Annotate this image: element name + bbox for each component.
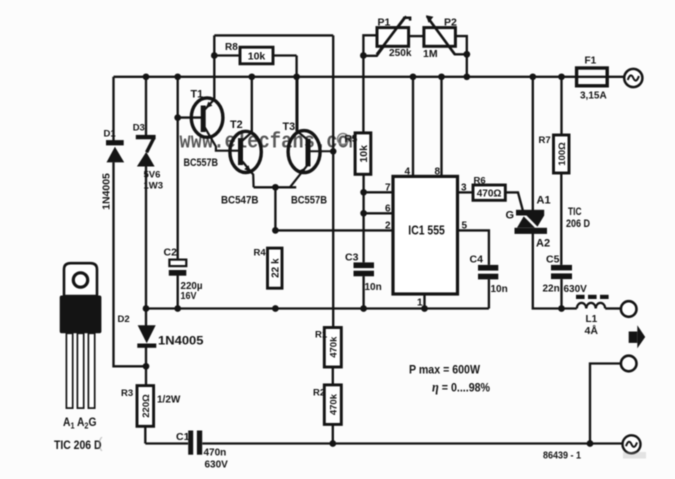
wire T2/T3 emitter junction bbox=[254, 187, 297, 230]
svg-text:1: 1 bbox=[417, 298, 423, 309]
svg-text:R2: R2 bbox=[313, 388, 325, 399]
wire P1 left lead bbox=[363, 35, 377, 56]
junction R4 pin2 bbox=[272, 227, 279, 234]
junction T1 base bbox=[174, 114, 181, 121]
output arrow bbox=[629, 325, 646, 348]
junction T2 collector top rail bbox=[248, 73, 255, 80]
svg-text:1M: 1M bbox=[423, 48, 438, 60]
junction pin4 top rail bbox=[410, 73, 417, 80]
svg-text:10n: 10n bbox=[365, 282, 382, 293]
wire P1 wiper tie bbox=[363, 16, 406, 56]
svg-text:7: 7 bbox=[385, 182, 391, 193]
diode D2 bbox=[137, 325, 156, 348]
svg-text:8: 8 bbox=[435, 167, 441, 178]
wire top loop bbox=[214, 34, 333, 36]
watermark www.elecfans.com bbox=[180, 130, 361, 155]
wire 555 pin4 lead bbox=[412, 77, 414, 177]
wire D3/D2/R3 column bbox=[144, 77, 147, 444]
wire P1-P2 link bbox=[409, 35, 424, 37]
resistor R7 bbox=[554, 135, 570, 173]
svg-text:D3: D3 bbox=[133, 123, 145, 134]
wire L1 to terminal bbox=[605, 307, 621, 309]
svg-text:G: G bbox=[506, 209, 515, 221]
svg-text:P max = 600W: P max = 600W bbox=[409, 363, 481, 377]
resistor R1 bbox=[324, 328, 341, 368]
svg-text:BC557B: BC557B bbox=[184, 157, 219, 169]
junction pin1 ground rail bbox=[421, 305, 428, 312]
junction T2 T3 emitters bbox=[272, 184, 279, 191]
svg-text:86439 - 1: 86439 - 1 bbox=[543, 450, 581, 462]
wire T1 base lead bbox=[178, 116, 202, 118]
junction P2 wiper bbox=[463, 51, 470, 58]
wire 555 pin1 lead bbox=[423, 294, 425, 309]
triac symbol bbox=[515, 210, 548, 234]
svg-text:470k: 470k bbox=[328, 393, 339, 415]
svg-text:470k: 470k bbox=[328, 336, 339, 358]
svg-text:A1 A2G: A1 A2G bbox=[63, 415, 97, 431]
wire T2 collector bbox=[251, 77, 253, 132]
junction R8 left bbox=[211, 52, 218, 59]
junction R5 pin7 bbox=[360, 189, 367, 196]
junction C2 ground rail bbox=[174, 305, 181, 312]
junction C2 column top rail bbox=[174, 73, 181, 80]
transistor T1 bbox=[191, 98, 238, 151]
svg-text:R4: R4 bbox=[254, 248, 267, 259]
inductor L1 core dashes bbox=[576, 295, 609, 299]
svg-text:BC547B: BC547B bbox=[221, 194, 259, 206]
wire R5 column bbox=[362, 56, 365, 309]
svg-text:5: 5 bbox=[462, 220, 468, 231]
AC source bottom bbox=[623, 435, 641, 453]
junction pin8 top rail bbox=[438, 73, 445, 80]
svg-text:220Ω: 220Ω bbox=[141, 394, 152, 418]
svg-text:T1: T1 bbox=[191, 89, 204, 101]
svg-text:10k: 10k bbox=[248, 51, 266, 63]
svg-text:100Ω: 100Ω bbox=[557, 142, 568, 166]
svg-text:470n: 470n bbox=[204, 448, 227, 459]
svg-text:TIC 206 D: TIC 206 D bbox=[54, 438, 102, 452]
svg-text:η = 0....98%: η = 0....98% bbox=[432, 381, 490, 396]
junction pin6 bbox=[360, 210, 367, 217]
wire 555 pin8 lead bbox=[440, 77, 442, 177]
potentiometer P2 bbox=[424, 15, 456, 54]
svg-text:3: 3 bbox=[461, 182, 467, 193]
svg-text:22 k: 22 k bbox=[271, 258, 282, 278]
wire P2 wiper tie bbox=[427, 16, 467, 54]
svg-text:16V: 16V bbox=[181, 290, 197, 302]
wire 555 pin3 lead bbox=[458, 191, 474, 193]
wire C4 bottom lead bbox=[488, 279, 490, 308]
capacitor C5 bbox=[551, 265, 572, 279]
zener D3 bbox=[136, 135, 156, 167]
svg-text:L1: L1 bbox=[586, 314, 598, 325]
svg-text:3,15A: 3,15A bbox=[580, 91, 607, 102]
wire long feedback vertical bbox=[332, 35, 334, 327]
svg-text:10k: 10k bbox=[358, 145, 370, 163]
svg-text:C5: C5 bbox=[546, 254, 560, 266]
junction R2 bottom rail bbox=[329, 440, 336, 447]
svg-text:5V6: 5V6 bbox=[144, 170, 161, 181]
TIC206D package drawing bbox=[60, 263, 102, 408]
junction R7 top rail bbox=[558, 73, 565, 80]
inductor L1 coil bbox=[577, 303, 605, 309]
svg-text:P2: P2 bbox=[444, 17, 457, 29]
wire D1 column bbox=[114, 77, 147, 367]
wire P2 right lead bbox=[455, 36, 466, 77]
resistor R8 bbox=[240, 47, 273, 64]
svg-text:R3: R3 bbox=[121, 388, 133, 399]
junction D3 D2 ground rail bbox=[143, 305, 150, 312]
svg-text:22n: 22n bbox=[543, 284, 560, 295]
wire C2 / T1 base column bbox=[177, 77, 179, 309]
svg-text:4Å: 4Å bbox=[585, 324, 599, 337]
transistor T2 bbox=[230, 131, 261, 187]
junction terminal2 bottom rail bbox=[587, 440, 594, 447]
junction T3 collector top rail bbox=[293, 73, 300, 80]
svg-text:6: 6 bbox=[385, 203, 391, 214]
svg-text:R7: R7 bbox=[539, 135, 551, 146]
svg-text:1N4005: 1N4005 bbox=[100, 173, 112, 210]
svg-text:C1: C1 bbox=[176, 431, 190, 443]
diode D1 bbox=[106, 140, 124, 162]
svg-text:R1: R1 bbox=[315, 330, 328, 341]
junction C3 ground rail bbox=[360, 305, 367, 312]
transistor T3 bbox=[288, 77, 333, 188]
svg-text:D2: D2 bbox=[118, 314, 130, 325]
svg-text:D1: D1 bbox=[104, 128, 117, 139]
resistor R4 bbox=[268, 248, 283, 288]
svg-text:A1: A1 bbox=[537, 195, 551, 207]
capacitor C3 bbox=[354, 262, 375, 276]
potentiometer P1 bbox=[377, 18, 410, 55]
IC 555 box U1 bbox=[393, 176, 458, 294]
wire R1-R2 link bbox=[332, 367, 334, 444]
svg-text:T2: T2 bbox=[230, 119, 243, 131]
svg-text:C2: C2 bbox=[164, 247, 178, 259]
junction T3 base bbox=[330, 148, 337, 155]
wire bottom rail bbox=[145, 442, 623, 444]
junction C5 output rail bbox=[558, 305, 565, 312]
svg-text:C4: C4 bbox=[470, 254, 484, 266]
output terminal 2 bbox=[621, 356, 637, 372]
junction R4 ground rail bbox=[272, 305, 279, 312]
junction triac top rail bbox=[529, 73, 536, 80]
wire triac column bbox=[533, 77, 577, 309]
wire ground rail bbox=[146, 307, 489, 309]
wire 555 pin7 pin6 leads bbox=[364, 192, 393, 213]
wire triac gate lead bbox=[505, 192, 523, 210]
AC source top bbox=[624, 69, 642, 87]
watermark bottom right bbox=[623, 452, 646, 459]
junction D1 D2 R3 bbox=[143, 363, 150, 370]
junction D3 top rail bbox=[143, 73, 150, 80]
svg-text:A2: A2 bbox=[536, 238, 550, 250]
wire R7/C5 column bbox=[560, 77, 563, 309]
svg-text:R5: R5 bbox=[345, 134, 358, 145]
svg-text:R8: R8 bbox=[225, 42, 238, 53]
fuse F1 bbox=[577, 68, 608, 86]
wire main top rail bbox=[114, 76, 626, 78]
resistor R2 bbox=[324, 385, 341, 425]
svg-text:R6: R6 bbox=[474, 176, 486, 187]
svg-text:1/2W: 1/2W bbox=[157, 395, 181, 406]
svg-text:P1: P1 bbox=[378, 17, 391, 29]
resistor R3 bbox=[137, 386, 154, 427]
junction P2 top rail bbox=[463, 73, 470, 80]
svg-text:F1: F1 bbox=[585, 56, 597, 67]
svg-text:BC557B: BC557B bbox=[291, 194, 327, 206]
wire 555 pin5 / C4 lead bbox=[458, 230, 489, 265]
svg-text:2: 2 bbox=[385, 220, 391, 231]
capacitor C1 bbox=[188, 431, 202, 455]
svg-text:1W3: 1W3 bbox=[144, 181, 164, 192]
wire 555 pin2 lead bbox=[275, 229, 393, 231]
svg-text:C3: C3 bbox=[345, 252, 359, 264]
capacitor C4 bbox=[478, 265, 498, 280]
svg-text:10n: 10n bbox=[491, 284, 508, 295]
output terminal 1 bbox=[621, 301, 637, 317]
svg-text:1N4005: 1N4005 bbox=[158, 336, 204, 348]
svg-text:206 D: 206 D bbox=[566, 218, 590, 230]
svg-text:630V: 630V bbox=[564, 284, 588, 295]
svg-text:470Ω: 470Ω bbox=[477, 189, 502, 200]
svg-text:630V: 630V bbox=[205, 460, 229, 471]
junction P1 wiper bbox=[360, 52, 367, 59]
svg-text:TIC: TIC bbox=[568, 206, 582, 218]
wire output terminal 2 bbox=[590, 364, 621, 444]
resistor R6 bbox=[473, 185, 505, 200]
svg-text:T3: T3 bbox=[283, 121, 296, 133]
svg-text:(: ( bbox=[96, 436, 105, 453]
capacitor C2 bbox=[169, 260, 187, 276]
resistor R5 bbox=[355, 133, 371, 174]
wire R8 right / T3 collector vertical bbox=[295, 56, 297, 132]
svg-text:IC1 555: IC1 555 bbox=[408, 222, 445, 237]
wire R8 leads bbox=[214, 54, 296, 56]
svg-text:250k: 250k bbox=[389, 47, 412, 59]
wire T1 emitter / R8 left vertical bbox=[213, 35, 215, 98]
svg-text:4: 4 bbox=[405, 167, 411, 178]
